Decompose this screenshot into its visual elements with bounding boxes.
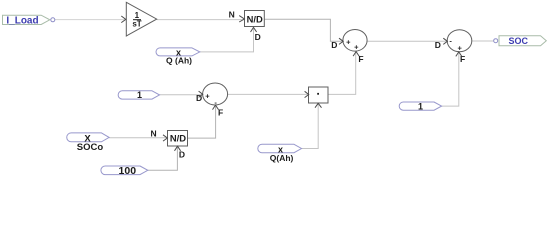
output tag SOC <box>499 36 546 46</box>
wire summer S2 output to multiplier <box>228 93 309 95</box>
multiplier block <box>309 87 329 103</box>
arrowhead into N/D2 left <box>163 135 167 141</box>
data label x / Q (Ah) top <box>156 47 200 65</box>
divider block N/D1 <box>245 11 265 27</box>
arrowhead into S1 bottom <box>353 52 359 57</box>
svg-text:N/D: N/D <box>247 13 263 24</box>
wire constant 100 to N/D2 D input <box>148 146 178 170</box>
svg-text:+: + <box>205 91 210 100</box>
svg-text:100: 100 <box>119 165 137 177</box>
wire N/D1 output to summer S1 D input <box>264 19 343 41</box>
arrowhead into S2 bottom <box>213 105 219 110</box>
summer S2 <box>203 83 228 107</box>
wire summer S3 output to SOC port <box>472 40 494 42</box>
svg-text:I_Load: I_Load <box>6 15 38 26</box>
summer S1 <box>343 30 367 52</box>
svg-text:+: + <box>346 37 351 46</box>
constant label 100 <box>101 165 148 177</box>
svg-text:N/D: N/D <box>170 133 186 144</box>
port circle at I_Load <box>51 18 55 22</box>
svg-text:sT: sT <box>132 19 141 28</box>
arrowhead into N/D2 bottom <box>175 146 181 151</box>
integrator U1 1/sT <box>126 2 156 36</box>
wire summer S1 output to summer S3 D input <box>367 40 447 42</box>
wire Q(Ah)2 label to multiplier bottom input <box>302 104 319 149</box>
svg-text:N: N <box>229 9 235 19</box>
data label X / SOCo <box>67 133 109 153</box>
wire constant 1 to summer S2 D input <box>160 94 203 96</box>
svg-text:D: D <box>255 32 261 42</box>
svg-text:Q (Ah): Q (Ah) <box>166 56 192 66</box>
svg-text:1: 1 <box>137 90 142 100</box>
svg-text:SOCo: SOCo <box>77 142 104 153</box>
arrowhead into integrator <box>121 16 126 23</box>
svg-text:D: D <box>179 149 185 159</box>
arrowhead into multiplier bottom <box>315 103 322 107</box>
wire Q(Ah) label to N/D1 D input <box>200 28 254 52</box>
svg-text:N: N <box>151 129 157 139</box>
port circle at SOC <box>494 39 498 43</box>
wire I_Load to integrator <box>55 19 126 21</box>
wire N/D2 output to summer S2 F input <box>188 105 216 138</box>
arrowhead into N/D1 bottom <box>251 27 257 32</box>
svg-text:+: + <box>354 43 359 52</box>
svg-text:F: F <box>358 54 363 64</box>
divider block N/D2 <box>168 131 188 147</box>
svg-text:D: D <box>331 40 337 50</box>
constant label 1 (middle left) <box>118 90 159 100</box>
wire constant 1b to summer S3 F input <box>442 52 459 106</box>
wire integrator to N/D1 <box>157 19 245 21</box>
svg-text:SOC: SOC <box>509 36 529 46</box>
wire SOCo label to N/D2 N input <box>109 137 168 139</box>
arrowhead into N/D1 left <box>239 16 244 22</box>
svg-text:Q(Ah): Q(Ah) <box>270 153 294 163</box>
summer S3 <box>447 30 472 53</box>
svg-text:1: 1 <box>418 101 423 111</box>
output tag I_Load <box>3 15 50 26</box>
data label x / Q(Ah) bottom <box>258 144 302 163</box>
svg-text:D: D <box>435 40 441 50</box>
wire multiplier output to summer S1 F input <box>328 52 356 95</box>
arrowhead into S3 left <box>443 38 447 44</box>
constant label 1 (bottom right) <box>399 101 441 111</box>
svg-text:+: + <box>458 43 463 52</box>
arrowhead into S2 left <box>199 91 203 97</box>
arrowhead into S1 left <box>339 38 343 44</box>
arrowhead into multiplier left <box>305 91 309 97</box>
arrowhead into S3 bottom <box>456 52 462 57</box>
